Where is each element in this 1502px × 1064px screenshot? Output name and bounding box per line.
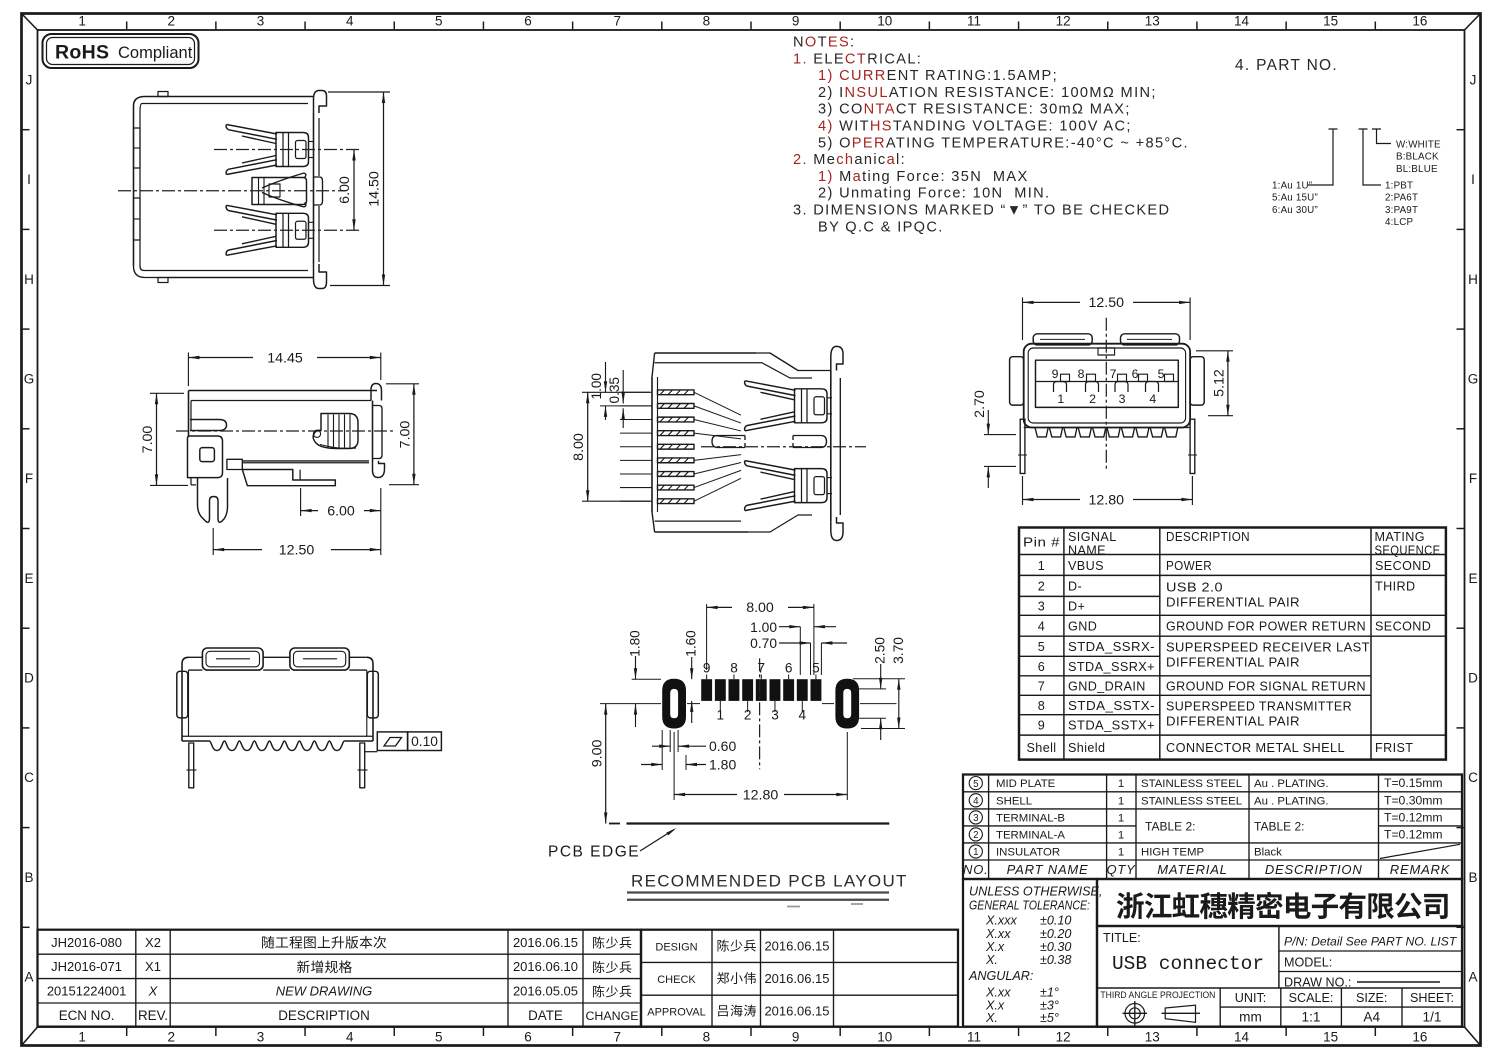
svg-text:GND_DRAIN: GND_DRAIN (1068, 679, 1146, 693)
svg-text:ECN NO.: ECN NO. (59, 1008, 115, 1023)
dimension 12.50 (view B) (213, 528, 381, 559)
svg-text:4: 4 (346, 14, 354, 29)
svg-text:4: 4 (973, 796, 979, 807)
svg-text:P/N: Detail See PART NO. LIST: P/N: Detail See PART NO. LIST (1284, 935, 1458, 949)
dimension 3.70 (pcb) (853, 637, 906, 729)
recommended pcb layout title (627, 872, 908, 900)
svg-text:T=0.12mm: T=0.12mm (1384, 810, 1443, 824)
dimension 6.00 (view A) (337, 150, 356, 231)
svg-text:DIFFERENTIAL PAIR: DIFFERENTIAL PAIR (1166, 656, 1300, 670)
svg-text:14: 14 (1234, 14, 1250, 29)
svg-text:NOTES:: NOTES: (793, 35, 855, 51)
svg-text:1: 1 (78, 14, 86, 29)
svg-text:RoHS: RoHS (55, 42, 109, 64)
svg-text:GROUND FOR SIGNAL RETURN: GROUND FOR SIGNAL RETURN (1166, 679, 1366, 693)
svg-text:15: 15 (1323, 1030, 1338, 1045)
dimension 0.60 (pcb) (652, 730, 736, 754)
svg-text:±0.20: ±0.20 (1040, 927, 1071, 941)
title block (1097, 926, 1462, 1027)
svg-text:11: 11 (967, 1030, 981, 1045)
svg-text:7: 7 (1110, 367, 1117, 381)
svg-text:GROUND FOR POWER RETURN: GROUND FOR POWER RETURN (1166, 620, 1366, 634)
svg-text:6: 6 (785, 661, 793, 676)
dimension 9.00 (pcb) (590, 704, 608, 824)
svg-text:ANGULAR:: ANGULAR: (968, 969, 1033, 983)
svg-text:0.70: 0.70 (750, 636, 777, 651)
center clips (view D) (712, 436, 745, 448)
svg-text:UNLESS OTHERWISE,: UNLESS OTHERWISE, (969, 885, 1102, 899)
svg-text:THIRD: THIRD (1375, 580, 1415, 594)
svg-text:THIRD ANGLE PROJECTION: THIRD ANGLE PROJECTION (1100, 990, 1215, 1000)
svg-text:X.: X. (985, 1011, 998, 1025)
svg-text:1: 1 (1118, 795, 1124, 807)
svg-text:STDA_SSTX+: STDA_SSTX+ (1068, 719, 1155, 733)
svg-text:B: B (1468, 870, 1477, 885)
svg-text:12.80: 12.80 (1089, 492, 1125, 508)
svg-text:Au . PLATING.: Au . PLATING. (1254, 795, 1328, 807)
svg-text:7.00: 7.00 (140, 426, 156, 454)
RoHS Compliant badge (43, 34, 199, 68)
svg-text:RECOMMENDED PCB LAYOUT: RECOMMENDED PCB LAYOUT (631, 872, 908, 891)
svg-text:NAME: NAME (1068, 544, 1106, 558)
contact claws (view D) (745, 381, 832, 511)
dimension 2.70 (view E) (972, 390, 1016, 488)
svg-text:8: 8 (730, 661, 738, 676)
dimension 7.00 right (view B) (386, 384, 419, 485)
solder legs (view E) (1018, 419, 1197, 473)
svg-text:2: 2 (168, 14, 176, 29)
svg-text:MATERIAL: MATERIAL (1157, 862, 1227, 877)
svg-text:1.00: 1.00 (589, 373, 604, 400)
company name box (Zhejiang Hongsui Precision Electronics Co., Ltd.) (1097, 879, 1462, 926)
svg-text:10: 10 (877, 14, 892, 29)
view: top/rear view with solder legs (bottom-left) (177, 648, 378, 788)
dimension 14.50 (view A) (328, 92, 390, 286)
svg-text:DESCRIPTION: DESCRIPTION (1265, 862, 1363, 877)
svg-text:2: 2 (744, 708, 752, 723)
centerline (view D) (701, 446, 866, 448)
dimension 8.00 (pcb) (707, 600, 814, 675)
svg-text:6: 6 (1132, 367, 1139, 381)
svg-text:D+: D+ (1068, 600, 1085, 614)
svg-text:1: 1 (1118, 812, 1124, 824)
svg-text:2016.06.15: 2016.06.15 (513, 935, 578, 950)
svg-text:3: 3 (1038, 600, 1045, 614)
svg-text:1: 1 (78, 1030, 86, 1045)
svg-text:5:Au 15U”: 5:Au 15U” (1272, 193, 1318, 204)
svg-text:8: 8 (1038, 699, 1045, 713)
dimension 1.80 bottom (pcb) (641, 730, 736, 772)
dimension 12.80 (view E) (1023, 476, 1193, 508)
svg-text:9.00: 9.00 (590, 739, 606, 767)
svg-text:Pin #: Pin # (1023, 536, 1060, 550)
svg-text:5: 5 (973, 779, 979, 790)
svg-text:4: 4 (799, 708, 807, 723)
dimension 12.50 (view E) (1023, 295, 1191, 340)
svg-text:7: 7 (1038, 679, 1045, 693)
svg-text:CONNECTOR METAL SHELL: CONNECTOR METAL SHELL (1166, 741, 1345, 755)
svg-text:STDA_SSRX+: STDA_SSRX+ (1068, 660, 1155, 674)
svg-text:D: D (24, 671, 34, 686)
svg-text:1.80: 1.80 (628, 630, 643, 657)
svg-text:MID PLATE: MID PLATE (996, 778, 1056, 790)
svg-text:2: 2 (168, 1030, 176, 1045)
general tolerance block (963, 879, 1102, 1027)
svg-text:2: 2 (973, 830, 978, 841)
svg-text:REV.: REV. (138, 1008, 168, 1023)
svg-text:TERMINAL-A: TERMINAL-A (996, 829, 1065, 841)
svg-text:UNIT:: UNIT: (1235, 991, 1266, 1005)
view: side section view (center) (620, 346, 843, 540)
svg-text:2. Mechanical:: 2. Mechanical: (793, 152, 906, 168)
svg-text:X: X (148, 984, 159, 999)
svg-text:20151224001: 20151224001 (47, 984, 127, 999)
svg-text:DIFFERENTIAL PAIR: DIFFERENTIAL PAIR (1166, 596, 1300, 610)
pin assignment table (1019, 528, 1446, 760)
svg-text:DESCRIPTION: DESCRIPTION (278, 1008, 370, 1023)
svg-text:9: 9 (1038, 719, 1045, 733)
svg-text:5: 5 (1158, 367, 1165, 381)
revision history table (38, 930, 642, 1027)
mounting hole right (835, 679, 859, 729)
svg-text:2: 2 (1089, 392, 1096, 406)
svg-text:3. DIMENSIONS MARKED “▼” TO BE: 3. DIMENSIONS MARKED “▼” TO BE CHECKED (793, 203, 1170, 219)
svg-text:Compliant: Compliant (118, 44, 193, 62)
svg-text:I: I (27, 172, 31, 187)
svg-text:QTY: QTY (1106, 862, 1136, 877)
svg-text:8.00: 8.00 (746, 600, 774, 616)
svg-text:JH2016-071: JH2016-071 (51, 959, 122, 974)
svg-text:CHECK: CHECK (657, 974, 696, 986)
svg-text:T=0.30mm: T=0.30mm (1384, 793, 1443, 807)
svg-text:2) Unmating Force: 10N MIN.: 2) Unmating Force: 10N MIN. (818, 186, 1050, 202)
svg-text:FRIST: FRIST (1375, 741, 1413, 755)
svg-text:MODEL:: MODEL: (1284, 956, 1332, 970)
svg-text:USB 2.0: USB 2.0 (1166, 581, 1223, 595)
svg-text:1: 1 (1118, 847, 1124, 859)
svg-text:DRAW NO.:: DRAW NO.: (1284, 976, 1351, 990)
svg-text:5.12: 5.12 (1211, 369, 1227, 397)
svg-text:1) CURRENT RATING:1.5AMP;: 1) CURRENT RATING:1.5AMP; (818, 68, 1058, 84)
svg-text:TERMINAL-B: TERMINAL-B (996, 812, 1065, 824)
dimension 8.00 (view D) (571, 392, 650, 501)
svg-text:G: G (24, 371, 35, 386)
svg-text:7: 7 (758, 661, 766, 676)
svg-text:2016.06.15: 2016.06.15 (764, 971, 829, 986)
svg-text:7: 7 (613, 14, 621, 29)
svg-text:JH2016-080: JH2016-080 (51, 935, 122, 950)
svg-text:B: B (24, 870, 33, 885)
svg-text:4:LCP: 4:LCP (1385, 217, 1413, 228)
svg-text:4: 4 (1149, 392, 1156, 406)
svg-text:X.: X. (985, 953, 998, 967)
svg-text:1: 1 (1118, 829, 1124, 841)
svg-text:BL:BLUE: BL:BLUE (1396, 164, 1438, 175)
svg-text:12: 12 (1056, 1030, 1071, 1045)
svg-text:7.00: 7.00 (397, 421, 413, 449)
svg-text:A: A (1468, 970, 1477, 985)
svg-text:TABLE 2:: TABLE 2: (1254, 820, 1304, 834)
svg-text:SHEET:: SHEET: (1410, 991, 1454, 1005)
view: USB receptacle front view (top-left) (134, 91, 327, 289)
dimension 7.00 left (view B) (140, 393, 188, 485)
dimension 6.00 (view B) (301, 488, 381, 555)
svg-text:STAINLESS STEEL: STAINLESS STEEL (1141, 795, 1242, 807)
flatness callout 0.10 (view C) (365, 732, 442, 752)
pin numbers (view E) (1052, 367, 1165, 406)
mounting hole left (662, 679, 686, 729)
svg-text:15: 15 (1323, 14, 1338, 29)
svg-text:J: J (1470, 72, 1477, 87)
bottom teeth (view E) (1024, 428, 1190, 437)
svg-text:X1: X1 (145, 959, 161, 974)
svg-text:12.80: 12.80 (743, 787, 779, 803)
svg-text:HIGH TEMP: HIGH TEMP (1141, 847, 1204, 859)
dimension 1.80 left (pcb) (628, 630, 643, 727)
centerline horizontal (view B) (176, 430, 396, 432)
svg-text:X.xx: X.xx (985, 927, 1011, 941)
svg-text:3: 3 (771, 708, 779, 723)
recommended pcb layout: solder pads (701, 679, 821, 701)
svg-text:DATE: DATE (528, 1008, 563, 1023)
svg-text:W:WHITE: W:WHITE (1396, 140, 1441, 151)
svg-text:1. ELECTRICAL:: 1. ELECTRICAL: (793, 51, 922, 67)
svg-text:±0.38: ±0.38 (1040, 953, 1071, 967)
svg-text:12.50: 12.50 (1089, 295, 1125, 311)
svg-text:6.00: 6.00 (327, 504, 355, 520)
svg-text:±1°: ±1° (1040, 986, 1059, 1000)
svg-text:3: 3 (257, 1030, 265, 1045)
svg-text:2016.06.15: 2016.06.15 (764, 939, 829, 954)
svg-text:7: 7 (613, 1030, 621, 1045)
svg-text:X.xx: X.xx (985, 986, 1011, 1000)
svg-text:INSULATOR: INSULATOR (996, 847, 1060, 859)
svg-text:0.60: 0.60 (709, 738, 736, 754)
third angle projection symbol (1123, 1001, 1201, 1026)
part no. coding legend (1308, 129, 1391, 185)
svg-text:D-: D- (1068, 580, 1082, 594)
svg-text:DESCRIPTION: DESCRIPTION (1166, 530, 1250, 544)
svg-text:4: 4 (1038, 620, 1045, 634)
svg-text:SECOND: SECOND (1375, 559, 1431, 573)
svg-text:CHANGE: CHANGE (585, 1009, 638, 1023)
svg-text:J: J (26, 72, 33, 87)
svg-text:NO.: NO. (963, 862, 989, 877)
svg-text:1: 1 (1038, 559, 1045, 573)
svg-text:SHELL: SHELL (996, 795, 1032, 807)
svg-text:TABLE 2:: TABLE 2: (1145, 820, 1195, 834)
svg-text:6.00: 6.00 (337, 176, 353, 204)
centerline horizontal (view A) (118, 190, 345, 192)
svg-text:4) WITHSTANDING VOLTAGE: 100V: 4) WITHSTANDING VOLTAGE: 100V AC; (818, 119, 1132, 135)
svg-text:5: 5 (1038, 640, 1045, 654)
svg-text:2016.05.05: 2016.05.05 (513, 984, 578, 999)
svg-text:APPROVAL: APPROVAL (647, 1007, 706, 1019)
svg-text:TITLE:: TITLE: (1103, 931, 1141, 945)
svg-text:6: 6 (524, 1030, 532, 1045)
svg-text:12.50: 12.50 (279, 543, 315, 559)
svg-text:5) OPERATING TEMPERATURE:-40°C: 5) OPERATING TEMPERATURE:-40°C ~ +85°C. (818, 135, 1189, 151)
svg-text:D: D (1468, 671, 1478, 686)
svg-text:GND: GND (1068, 620, 1097, 634)
svg-text:X.xxx: X.xxx (985, 914, 1017, 928)
svg-text:±5°: ±5° (1040, 1011, 1059, 1025)
svg-text:16: 16 (1412, 1030, 1427, 1045)
dimension 12.80 (pcb) (674, 732, 847, 803)
dimension 0.70 (pcb) (750, 636, 847, 675)
svg-text:3:PA9T: 3:PA9T (1385, 205, 1418, 216)
svg-text:Au . PLATING.: Au . PLATING. (1254, 778, 1328, 790)
svg-text:Shield: Shield (1068, 741, 1105, 755)
centerline vertical (view E) (1105, 318, 1107, 471)
svg-text:2:PA6T: 2:PA6T (1385, 193, 1418, 204)
svg-text:14.45: 14.45 (267, 351, 303, 367)
svg-text:3: 3 (973, 813, 979, 824)
dimension 1.00 (pcb) (750, 620, 836, 675)
svg-text:B:BLACK: B:BLACK (1396, 152, 1439, 163)
svg-text:SUPERSPEED RECEIVER LAST: SUPERSPEED RECEIVER LAST (1166, 641, 1370, 655)
svg-text:2.50: 2.50 (873, 637, 888, 664)
approval block (641, 930, 958, 1027)
svg-text:5: 5 (435, 14, 443, 29)
svg-text:REMARK: REMARK (1390, 862, 1451, 877)
svg-text:1: 1 (1057, 392, 1064, 406)
svg-text:4: 4 (346, 1030, 354, 1045)
construction lines (pcb layout) (600, 703, 661, 705)
svg-text:A4: A4 (1363, 1010, 1380, 1025)
svg-text:F: F (1469, 471, 1477, 486)
svg-text:2) INSULATION RESISTANCE: 100M: 2) INSULATION RESISTANCE: 100MΩ MIN; (818, 85, 1157, 101)
svg-text:2016.06.10: 2016.06.10 (513, 959, 578, 974)
svg-text:NEW DRAWING: NEW DRAWING (276, 984, 373, 999)
svg-text:MATING: MATING (1375, 530, 1425, 544)
svg-text:5: 5 (812, 661, 820, 676)
svg-text:3) CONTACT RESISTANCE: 30mΩ MA: 3) CONTACT RESISTANCE: 30mΩ MAX; (818, 102, 1131, 118)
svg-text:G: G (1468, 371, 1479, 386)
svg-text:SCALE:: SCALE: (1289, 991, 1334, 1005)
dimension 5.12 (view E) (1196, 351, 1233, 416)
svg-text:T=0.12mm: T=0.12mm (1384, 827, 1443, 841)
svg-text:STDA_SSRX-: STDA_SSRX- (1068, 640, 1155, 654)
dimension 2.50 (pcb) (853, 637, 888, 740)
svg-text:I: I (1471, 172, 1475, 187)
dimension 14.45 (view B) (188, 351, 380, 387)
svg-text:F: F (25, 471, 33, 486)
svg-text:SIZE:: SIZE: (1356, 991, 1388, 1005)
svg-text:8: 8 (703, 1030, 711, 1045)
svg-text:14: 14 (1234, 1030, 1250, 1045)
svg-text:2016.06.15: 2016.06.15 (764, 1004, 829, 1019)
svg-text:mm: mm (1239, 1010, 1262, 1025)
dimension 1.60 (pcb) (684, 630, 699, 723)
svg-text:11: 11 (967, 14, 981, 29)
svg-text:3.70: 3.70 (891, 637, 906, 664)
parts list table (963, 775, 1462, 880)
svg-text:16: 16 (1412, 14, 1427, 29)
svg-text:1) Mating Force: 35N MAX: 1) Mating Force: 35N MAX (818, 169, 1029, 185)
svg-text:6:Au 30U”: 6:Au 30U” (1272, 205, 1318, 216)
svg-text:T=0.15mm: T=0.15mm (1384, 776, 1443, 790)
svg-text:8: 8 (1078, 367, 1085, 381)
svg-text:8.00: 8.00 (571, 433, 587, 461)
svg-text:9: 9 (792, 14, 800, 29)
svg-text:Shell: Shell (1026, 741, 1056, 755)
svg-text:13: 13 (1145, 14, 1160, 29)
svg-text:2.70: 2.70 (972, 390, 988, 418)
dimension 0.35 (view D) (607, 370, 625, 428)
svg-text:H: H (1468, 272, 1478, 287)
svg-text:10: 10 (877, 1030, 892, 1045)
pcb edge line and label (548, 824, 889, 861)
svg-text:POWER: POWER (1166, 559, 1212, 573)
svg-text:1/1: 1/1 (1423, 1010, 1442, 1025)
svg-text:Black: Black (1254, 847, 1282, 859)
svg-text:C: C (1468, 770, 1478, 785)
faint scan marks above approval block (787, 906, 800, 908)
svg-text:0.35: 0.35 (607, 377, 622, 403)
svg-text:VBUS: VBUS (1068, 559, 1104, 573)
svg-text:SIGNAL: SIGNAL (1068, 530, 1117, 544)
svg-text:SEQUENCE: SEQUENCE (1375, 544, 1441, 558)
view: mating face view (upper-right) (1010, 334, 1205, 428)
svg-text:9: 9 (1052, 367, 1059, 381)
svg-text:1: 1 (1118, 778, 1124, 790)
svg-text:STDA_SSTX-: STDA_SSTX- (1068, 699, 1155, 713)
pad number stubs and numerals (703, 661, 820, 723)
svg-text:X2: X2 (145, 935, 161, 950)
svg-text:BY Q.C & IPQC.: BY Q.C & IPQC. (818, 219, 944, 235)
svg-text:8: 8 (703, 14, 711, 29)
svg-text:1:1: 1:1 (1302, 1010, 1321, 1025)
svg-text:5: 5 (435, 1030, 443, 1045)
svg-text:12: 12 (1056, 14, 1071, 29)
view: side profile view (middle-left) (188, 384, 385, 523)
svg-text:1.80: 1.80 (709, 756, 736, 772)
svg-text:C: C (24, 770, 34, 785)
svg-text:USB connector: USB connector (1112, 953, 1264, 975)
svg-text:A: A (24, 970, 33, 985)
svg-text:STAINLESS STEEL: STAINLESS STEEL (1141, 778, 1242, 790)
svg-text:13: 13 (1145, 1030, 1160, 1045)
svg-text:E: E (24, 571, 33, 586)
svg-text:SUPERSPEED TRANSMITTER: SUPERSPEED TRANSMITTER (1166, 700, 1352, 714)
svg-text:1: 1 (973, 847, 978, 858)
svg-text:SECOND: SECOND (1375, 620, 1431, 634)
dimension 1.00 (view D) (589, 362, 652, 420)
svg-text:H: H (24, 272, 34, 287)
svg-text:14.50: 14.50 (367, 171, 383, 207)
svg-text:E: E (1468, 571, 1477, 586)
svg-text:1:Au 1U”: 1:Au 1U” (1272, 181, 1312, 192)
svg-text:GENERAL TOLERANCE:: GENERAL TOLERANCE: (969, 899, 1090, 913)
svg-text:3: 3 (257, 14, 265, 29)
svg-text:1.00: 1.00 (750, 620, 777, 635)
svg-text:9: 9 (792, 1030, 800, 1045)
svg-text:1:PBT: 1:PBT (1385, 181, 1413, 192)
svg-text:±0.10: ±0.10 (1040, 914, 1071, 928)
svg-text:1: 1 (717, 708, 725, 723)
svg-text:PCB EDGE: PCB EDGE (548, 844, 640, 861)
svg-text:6: 6 (1038, 660, 1045, 674)
svg-text:0.10: 0.10 (411, 734, 438, 749)
svg-text:6: 6 (524, 14, 532, 29)
svg-text:3: 3 (1119, 392, 1126, 406)
svg-text:1.60: 1.60 (684, 630, 699, 657)
svg-text:4. PART NO.: 4. PART NO. (1235, 57, 1338, 74)
svg-text:DIFFERENTIAL PAIR: DIFFERENTIAL PAIR (1166, 715, 1300, 729)
svg-text:PART NAME: PART NAME (1007, 862, 1089, 877)
svg-text:2: 2 (1038, 580, 1045, 594)
